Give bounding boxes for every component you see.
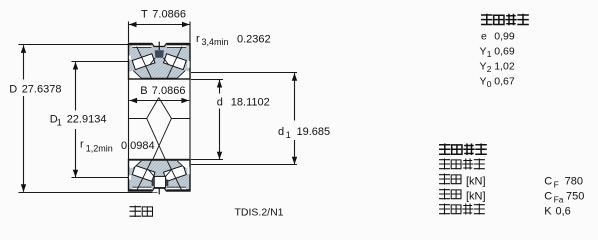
svg-text:C: C <box>544 176 552 188</box>
svg-text:0,99: 0,99 <box>494 30 515 42</box>
row 径向 [kN] / CF 780 <box>439 174 450 185</box>
axis line left segment <box>129 118 147 120</box>
cage line top-right roller <box>167 47 182 80</box>
roller right (top section) <box>164 54 187 70</box>
dimension d1 line <box>294 73 296 121</box>
outer ring OD white slot right <box>167 46 186 48</box>
label B 7.0866 background <box>136 83 189 96</box>
inner ring corner wedge right (top) <box>177 71 189 79</box>
dimension d1 extension line bottom <box>191 164 297 166</box>
dimension D1 extension line bottom <box>72 177 129 179</box>
axis line right segment <box>171 118 190 120</box>
top section bore line <box>129 78 191 80</box>
middle bore region side walls <box>128 79 130 160</box>
pressure line X arm down-right <box>147 118 166 159</box>
dimension D1 extension line top <box>72 61 129 63</box>
outer ring OD white slot left (bottom) <box>133 187 152 189</box>
pressure line V right arm <box>159 98 172 119</box>
svg-text:0,67: 0,67 <box>494 75 515 87</box>
roller right (bottom section) <box>164 165 187 181</box>
svg-text:e: e <box>481 30 487 42</box>
bottom section bore line <box>129 159 191 161</box>
pressure line V left arm <box>147 98 159 119</box>
svg-text:T: T <box>141 9 148 21</box>
OD groove bottom center recess <box>152 189 167 192</box>
svg-text:1: 1 <box>286 130 291 140</box>
svg-text:0,6: 0,6 <box>556 206 571 218</box>
svg-text:r: r <box>196 33 200 45</box>
svg-text:3,4min: 3,4min <box>202 37 229 47</box>
svg-text:C: C <box>544 191 552 203</box>
cage line top-left roller <box>137 47 152 80</box>
dimension T line <box>129 24 191 26</box>
outer ring OD white slot left <box>133 46 152 48</box>
right face nick (bottom section) <box>187 167 189 174</box>
pressure line X arm down-left <box>153 118 172 159</box>
outer ring OD surface line top <box>129 43 152 45</box>
svg-text:Y: Y <box>480 60 487 72</box>
label 设计 (design) <box>130 206 142 218</box>
left face nick (top section) <box>129 56 131 60</box>
svg-text:Fa: Fa <box>554 194 564 204</box>
dimension B line <box>129 100 189 102</box>
dimension d extension line top <box>191 79 223 81</box>
outer+inner ring top section body <box>129 44 191 80</box>
dimension D extension line top <box>19 44 129 46</box>
outer ring OD surface line bottom <box>129 189 152 191</box>
svg-text:K: K <box>544 206 552 218</box>
svg-text:D: D <box>9 84 17 96</box>
dimension D extension line bottom <box>19 192 158 194</box>
outer ring OD white slot right (bottom) <box>167 187 186 189</box>
inner ring corner wedge right (bottom) <box>177 161 189 169</box>
svg-text:B: B <box>140 85 147 97</box>
svg-text:d: d <box>278 126 284 138</box>
svg-text:1,2min: 1,2min <box>86 143 113 153</box>
outer+inner ring bottom section body <box>129 160 191 192</box>
inner ring flange lines (top) <box>150 58 155 65</box>
svg-text:Y: Y <box>480 75 487 87</box>
dimension d1 extension line top <box>191 72 297 74</box>
svg-text:18.1102: 18.1102 <box>231 97 270 109</box>
label d 18.1102 <box>214 95 267 108</box>
svg-text:0,69: 0,69 <box>494 45 515 57</box>
inner ring corner wedge left (bottom) <box>129 161 141 169</box>
dimension D1 line <box>75 62 77 111</box>
svg-text:750: 750 <box>566 191 584 203</box>
inner ring joint lines (bottom) <box>149 170 154 176</box>
header 计算系数 (calculation factors) <box>481 14 493 25</box>
row 额定载荷 (load ratings) <box>439 159 450 170</box>
svg-text:2: 2 <box>487 64 492 74</box>
slot side feet left <box>152 180 154 186</box>
svg-text:19.685: 19.685 <box>297 126 331 138</box>
roller left (top section) <box>132 54 155 70</box>
row 推力系数 / K 0,6 <box>439 204 450 215</box>
header 对比数据 (comparison data) <box>439 144 451 156</box>
split line at OD groove <box>158 42 160 50</box>
svg-text:Y: Y <box>480 45 487 57</box>
svg-text:1: 1 <box>487 49 492 59</box>
svg-text:1,02: 1,02 <box>494 60 515 72</box>
OD lubrication groove (top center recess) <box>152 42 167 45</box>
svg-text:[kN]: [kN] <box>466 176 486 188</box>
row 轴向 [kN] / CFa 750 <box>439 189 450 200</box>
cage line bottom-left roller <box>137 160 152 190</box>
svg-text:7.0866: 7.0866 <box>152 9 186 21</box>
svg-text:27.6378: 27.6378 <box>22 84 62 96</box>
dimension d line <box>219 80 221 94</box>
split line stub at bottom <box>158 185 160 194</box>
svg-text:0.0984: 0.0984 <box>121 140 155 152</box>
dimension d extension line bottom <box>191 159 223 161</box>
cage bar between top rollers <box>155 50 164 58</box>
svg-text:780: 780 <box>565 176 583 188</box>
roller left (bottom section) <box>132 165 155 181</box>
dimension T extension lines <box>128 22 130 43</box>
inner ring corner wedge left (top) <box>129 71 141 79</box>
dimension D line <box>23 45 25 79</box>
svg-text:0: 0 <box>487 79 492 89</box>
right face nick (top section) <box>187 61 189 68</box>
svg-text:r: r <box>80 139 84 151</box>
svg-text:7.0866: 7.0866 <box>152 85 186 97</box>
locating slot N1 (bottom center) <box>154 176 165 187</box>
cage line bottom-right roller <box>167 160 182 190</box>
svg-text:d: d <box>217 97 223 109</box>
svg-text:0.2362: 0.2362 <box>237 34 271 46</box>
svg-text:TDIS.2/N1: TDIS.2/N1 <box>235 207 284 219</box>
slot side feet right <box>166 180 168 186</box>
svg-text:1: 1 <box>57 117 62 127</box>
svg-text:F: F <box>554 179 559 189</box>
svg-text:[kN]: [kN] <box>466 191 486 203</box>
left face nick (bottom section) <box>129 175 131 179</box>
svg-text:22.9134: 22.9134 <box>67 113 107 125</box>
